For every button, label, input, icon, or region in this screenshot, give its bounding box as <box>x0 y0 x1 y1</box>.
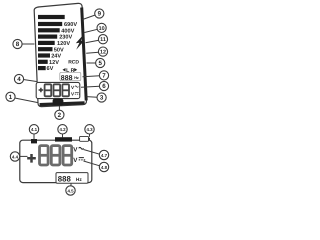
main display box <box>36 82 80 98</box>
LED bar 12V <box>38 60 48 64</box>
svg-text:4.5: 4.5 <box>67 188 74 193</box>
svg-text:4.2: 4.2 <box>59 127 66 132</box>
bar segment symbol <box>55 137 72 141</box>
svg-text:6: 6 <box>102 83 106 90</box>
LED bar 50V <box>38 47 53 51</box>
svg-text:690V: 690V <box>64 22 77 28</box>
callout 3 <box>97 93 106 102</box>
svg-text:888: 888 <box>58 175 72 184</box>
leader 10 <box>85 29 98 32</box>
svg-text:7: 7 <box>102 72 106 79</box>
callout 4.8 <box>99 162 108 171</box>
phase rotation L R indicator <box>63 68 78 74</box>
svg-text:10: 10 <box>99 26 105 32</box>
leader 9 <box>83 15 96 20</box>
leader 5 <box>87 62 96 64</box>
LED bar 400V <box>38 28 60 32</box>
LED bar 230V <box>38 35 57 39</box>
svg-text:Hz: Hz <box>76 177 82 183</box>
minus segment symbol <box>31 139 37 143</box>
tester thick bottom edge <box>40 103 85 105</box>
LED bar 6V <box>38 66 46 70</box>
svg-text:2: 2 <box>58 112 62 119</box>
leader 2 <box>58 106 60 111</box>
callout 4.4 <box>10 152 19 161</box>
Hz display (detail) <box>56 173 88 184</box>
leader 12 <box>86 52 99 53</box>
callout 12 <box>98 47 107 56</box>
svg-text:120V: 120V <box>57 41 70 47</box>
svg-text:1: 1 <box>9 94 13 101</box>
LED bar 24V <box>38 53 50 57</box>
leader 4.8 <box>84 161 100 166</box>
leader 1 <box>15 98 38 103</box>
big digit 8 (1) <box>40 146 49 165</box>
plus sign <box>39 88 44 93</box>
svg-text:Hz: Hz <box>74 76 79 80</box>
callout 6 <box>99 81 108 90</box>
digit 8 (3) <box>62 84 69 96</box>
leader 6 <box>81 86 100 87</box>
svg-text:8: 8 <box>16 41 20 48</box>
svg-text:50V: 50V <box>54 47 64 53</box>
svg-text:24V: 24V <box>51 54 61 60</box>
svg-text:4: 4 <box>17 76 21 83</box>
leader 7 <box>83 76 100 77</box>
svg-text:12V: 12V <box>49 60 59 66</box>
leader 11 <box>86 40 99 43</box>
leader 8 <box>22 43 35 45</box>
V ac label <box>71 85 78 90</box>
callout 5 <box>96 58 105 67</box>
svg-text:9: 9 <box>98 11 102 18</box>
LED bar top (unlabeled) <box>38 15 65 19</box>
display detail panel <box>20 140 92 182</box>
callout 9 <box>95 9 104 18</box>
svg-text:RCD: RCD <box>68 60 79 66</box>
leader 4.4 <box>20 155 28 157</box>
big digit 8 (2) <box>51 146 60 165</box>
callout 1 <box>6 92 15 101</box>
callout 10 <box>97 23 106 32</box>
svg-text:4.1: 4.1 <box>31 127 38 132</box>
leader 4.5 <box>70 183 72 186</box>
V ac symbol (detail) <box>73 146 83 153</box>
digit 8 (2) <box>54 84 61 96</box>
tester thick right edge <box>82 8 87 101</box>
callout 8 <box>13 39 22 48</box>
callout 4.5 <box>66 186 75 195</box>
callout 4.3 <box>85 125 94 134</box>
callout 7 <box>99 71 108 80</box>
digit 8 (1) <box>45 84 52 96</box>
leader 3 <box>87 96 98 99</box>
big plus sign <box>27 154 36 163</box>
callout 4.1 <box>29 125 38 134</box>
high-voltage lightning bolt <box>76 34 85 50</box>
svg-text:12: 12 <box>100 50 106 56</box>
leader 4.7 <box>84 150 100 155</box>
callout 4.2 <box>58 125 67 134</box>
svg-text:4.7: 4.7 <box>101 153 108 158</box>
leader 4.3 <box>89 134 91 137</box>
LED bar 120V <box>38 41 55 45</box>
svg-text:11: 11 <box>100 37 106 43</box>
svg-text:230V: 230V <box>59 35 72 41</box>
LED bar 690V <box>38 22 62 26</box>
leader 4.1 <box>33 134 35 140</box>
push button <box>53 99 64 106</box>
svg-text:400V: 400V <box>61 28 74 34</box>
big digit 8 (3) <box>63 146 72 165</box>
svg-text:5: 5 <box>98 60 102 67</box>
svg-text:6V: 6V <box>47 66 54 72</box>
leader 4 <box>23 80 36 82</box>
Hz display (small) <box>60 72 81 80</box>
tester body outline <box>34 3 86 106</box>
svg-text:4.4: 4.4 <box>12 154 19 159</box>
callout 2 <box>55 110 64 119</box>
V dc label <box>71 91 80 96</box>
battery symbol <box>80 136 90 141</box>
svg-text:4.8: 4.8 <box>101 165 108 170</box>
svg-text:4.3: 4.3 <box>86 127 93 132</box>
callout 4.7 <box>99 150 108 159</box>
svg-text:3: 3 <box>100 95 104 102</box>
callout 4 <box>14 74 23 83</box>
leader 4.2 <box>62 134 64 138</box>
svg-text:888: 888 <box>61 75 73 82</box>
V dc symbol (detail) <box>73 157 85 164</box>
callout 11 <box>98 35 107 44</box>
